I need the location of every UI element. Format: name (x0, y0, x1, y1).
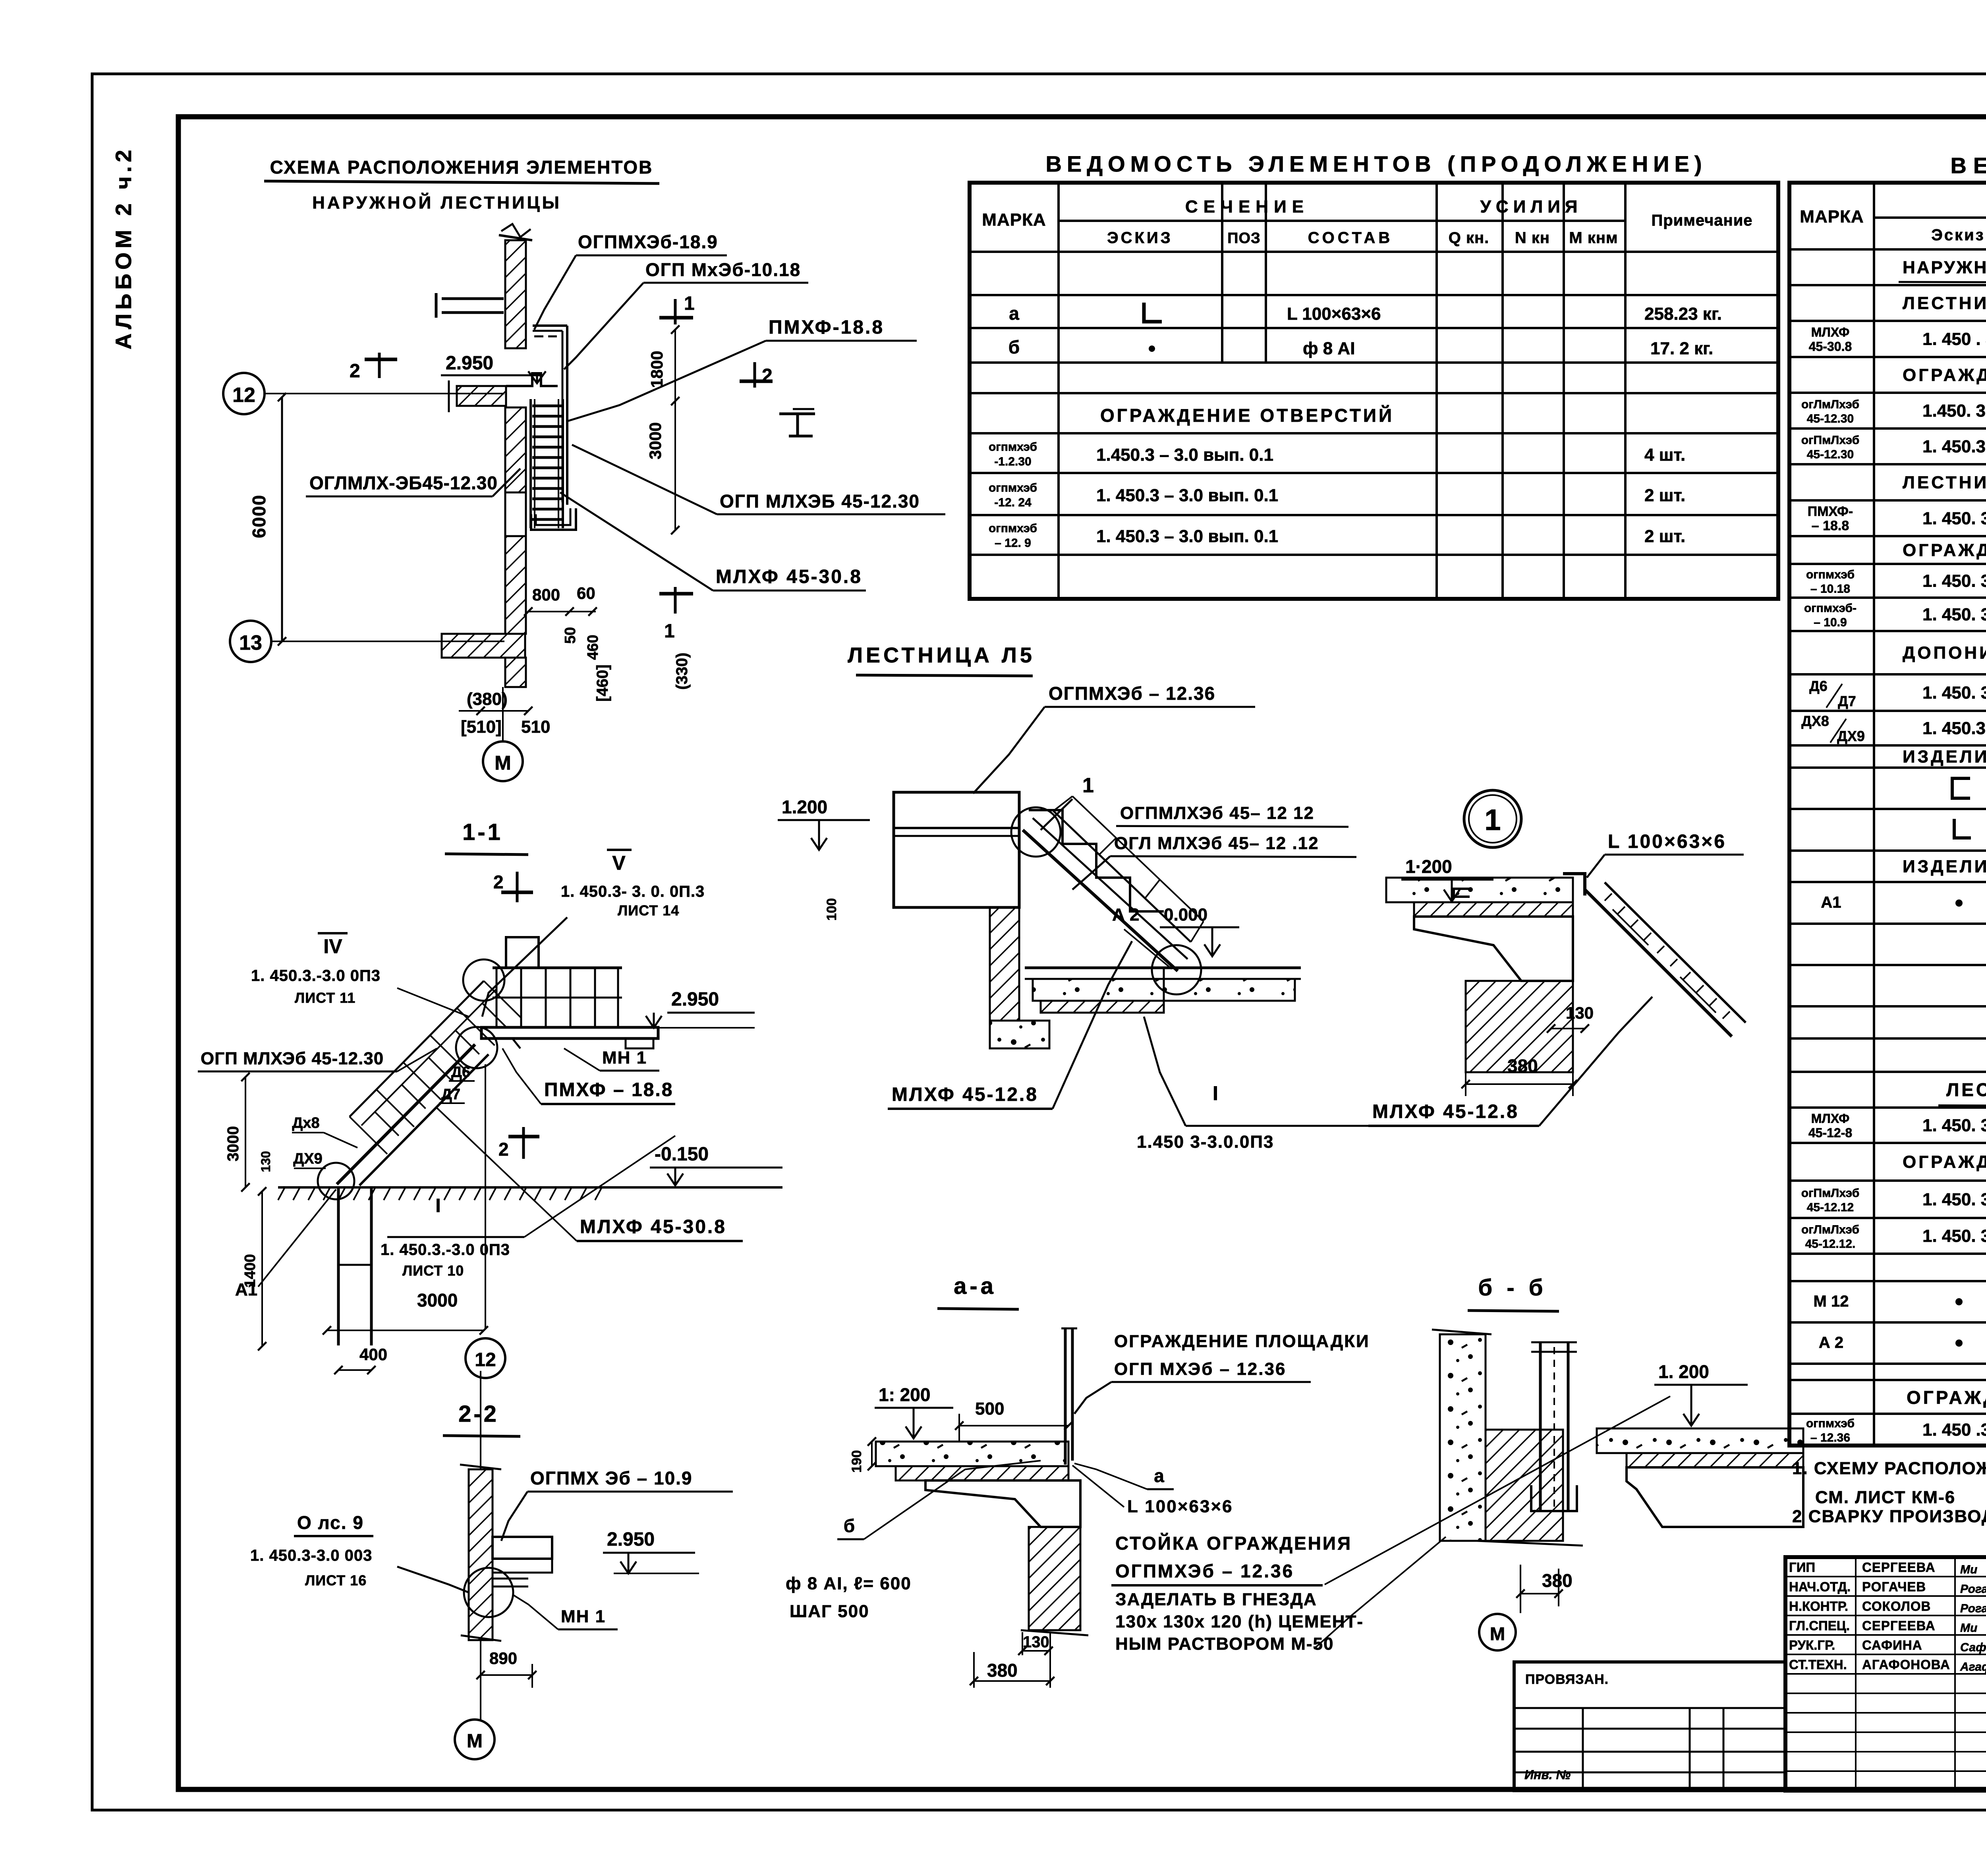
L5 joint circle top (1011, 807, 1061, 857)
svg-text:О лс. 9: О лс. 9 (297, 1512, 364, 1533)
svg-text:ГИП: ГИП (1789, 1560, 1815, 1575)
dim 6000 vertical (281, 397, 283, 641)
svg-text:2-2: 2-2 (458, 1401, 499, 1427)
svg-text:1800: 1800 (647, 351, 666, 388)
svg-text:а: а (1009, 303, 1019, 324)
svg-text:– 12.36: – 12.36 (1810, 1431, 1850, 1444)
svg-text:100: 100 (824, 898, 839, 921)
svg-text:258.23 кг.: 258.23 кг. (1644, 304, 1722, 324)
svg-text:МЛХФ 45-12.8: МЛХФ 45-12.8 (1372, 1101, 1519, 1122)
1-1 grass ticks (278, 1188, 284, 1200)
1-1 stair railing (350, 981, 484, 1117)
svg-text:б: б (1008, 337, 1020, 357)
svg-text:45-12.30: 45-12.30 (1807, 412, 1854, 425)
2-2 axis line lower (480, 1640, 481, 1720)
svg-text:45-12.12: 45-12.12 (1807, 1201, 1854, 1214)
svg-text:ОГРАЖДЕНИЕ ПЛОЩАДКИ: ОГРАЖДЕНИЕ ПЛОЩАДКИ (1114, 1332, 1370, 1351)
svg-text:Сафия: Сафия (1960, 1641, 1986, 1654)
svg-text:3000: 3000 (417, 1290, 458, 1310)
1-1 bottom joint circle (318, 1163, 354, 1199)
svg-text:ОГРАЖДЕНИЕ ОТВЕРСТИЙ: ОГРАЖДЕНИЕ ОТВЕРСТИЙ (1100, 405, 1394, 426)
axis line 12 (265, 393, 504, 394)
svg-text:800: 800 (532, 585, 560, 604)
svg-text:1.450. 3-3; вып. 0:1: 1.450. 3-3; вып. 0:1 (1922, 401, 1986, 421)
svg-text:1. 450 . 3 -3; вып. 0.1: 1. 450 . 3 -3; вып. 0.1 (1922, 330, 1986, 349)
svg-text:0.000: 0.000 (1164, 905, 1207, 924)
L5 railing lines (1053, 811, 1191, 942)
2-2 axis circle M (455, 1720, 495, 1759)
svg-text:I: I (1213, 1082, 1218, 1104)
svg-text:-0.150: -0.150 (655, 1144, 709, 1165)
L5 joint circle bottom (1152, 945, 1201, 994)
svg-text:ЗАДЕЛАТЬ В ГНЕЗДА: ЗАДЕЛАТЬ В ГНЕЗДА (1115, 1590, 1317, 1609)
2-2 wall hatched (469, 1469, 493, 1640)
L5 wall below platform (hatched) (990, 907, 1019, 1021)
svg-text:Рогач: Рогач (1960, 1602, 1986, 1615)
svg-text:ВЕДОМОСТЬ ЭЛЕМЕНТОВ: ВЕДОМОСТЬ ЭЛЕМЕНТОВ (1950, 153, 1986, 178)
schema channel dashes (534, 336, 543, 338)
svg-text:17. 2 кг.: 17. 2 кг. (1650, 339, 1713, 358)
svg-text:ГЛ.СПЕЦ.: ГЛ.СПЕЦ. (1789, 1618, 1850, 1633)
svg-text:б: б (844, 1515, 855, 1536)
svg-text:1. 450. 3-3; вып. 01: 1. 450. 3-3; вып. 01 (1922, 509, 1986, 528)
svg-text:1.450 3-3.0.0П3: 1.450 3-3.0.0П3 (1137, 1132, 1274, 1152)
svg-text:ДОПОНИТЕЛЬНЫЕ ЭЛЕМЕНТЫ: ДОПОНИТЕЛЬНЫЕ ЭЛЕМЕНТЫ (1903, 643, 1986, 663)
svg-text:I: I (435, 1195, 440, 1216)
1-1 top bend circles (463, 959, 504, 1001)
svg-text:Примечание: Примечание (1651, 212, 1752, 229)
svg-text:3000: 3000 (224, 1126, 242, 1162)
svg-text:ПМХФ-18.8: ПМХФ-18.8 (769, 317, 884, 338)
svg-text:ф 8 АI: ф 8 АI (1303, 339, 1355, 358)
svg-text:ОГЛ МЛХЭб 45– 12 .12: ОГЛ МЛХЭб 45– 12 .12 (1114, 834, 1319, 853)
svg-text:ОГПМХЭб – 12.36: ОГПМХЭб – 12.36 (1115, 1561, 1294, 1581)
svg-text:ИЗДЕЛИЯ ЗАКЛАДНЫЕ: ИЗДЕЛИЯ ЗАКЛАДНЫЕ (1903, 747, 1986, 766)
svg-text:400: 400 (359, 1345, 387, 1364)
svg-text:(330): (330) (673, 652, 691, 689)
svg-text:[460]: [460] (594, 664, 611, 701)
detail 1 slab hatch strip (1414, 902, 1573, 917)
1-1 tread marks (454, 1055, 465, 1065)
svg-text:СМ. ЛИСТ КМ-6: СМ. ЛИСТ КМ-6 (1815, 1488, 1955, 1507)
right table row L63 (1954, 819, 1971, 838)
L5 slab hatch strip (1041, 1001, 1164, 1013)
section flag 2 left (378, 353, 381, 378)
svg-text:2: 2 (498, 1139, 509, 1160)
svg-text:45-12.12.: 45-12.12. (1805, 1237, 1856, 1251)
svg-text:НАРУЖНАЯ ЛЕСТНИЦА (шт-1): НАРУЖНАЯ ЛЕСТНИЦА (шт-1) (1903, 258, 1986, 277)
svg-text:огЛмЛхэб: огЛмЛхэб (1801, 398, 1859, 411)
svg-text:РУК.ГР.: РУК.ГР. (1789, 1638, 1835, 1652)
svg-text:НЫМ РАСТВОРОМ М-50: НЫМ РАСТВОРОМ М-50 (1115, 1634, 1334, 1654)
schema slab at axis 13 (hatched) (442, 634, 525, 658)
2-2 joint circle (464, 1568, 513, 1617)
svg-text:ПРОВЯЗАН.: ПРОВЯЗАН. (1525, 1672, 1609, 1687)
svg-text:ЛЕСТНИЦА . Л5 (шт.3): ЛЕСТНИЦА . Л5 (шт.3) (1946, 1079, 1986, 1100)
svg-text:МЛХФ 45-12.8: МЛХФ 45-12.8 (892, 1084, 1038, 1105)
svg-text:М: М (1490, 1623, 1505, 1644)
1-1 platform support (626, 1038, 653, 1048)
L5 stair stringer (1023, 830, 1178, 971)
svg-text:1. 450. 3-3.0 вып.0.1: 1. 450. 3-3.0 вып.0.1 (1922, 1226, 1986, 1246)
svg-text:МН 1: МН 1 (561, 1607, 606, 1626)
svg-text:12: 12 (475, 1349, 496, 1370)
svg-text:ОГП МЛХЭБ 45-12.30: ОГП МЛХЭБ 45-12.30 (720, 491, 920, 511)
1-1 platform floor (481, 1027, 658, 1038)
svg-text:1. 450. 3-3.0 вып. 0.1: 1. 450. 3-3.0 вып. 0.1 (1922, 1190, 1986, 1209)
svg-text:ОГЛМЛХ-ЭБ45-12.30: ОГЛМЛХ-ЭБ45-12.30 (309, 473, 498, 493)
svg-text:L 100×63×6: L 100×63×6 (1608, 831, 1726, 852)
svg-text:ОГП МхЭб-10.18: ОГП МхЭб-10.18 (645, 259, 801, 280)
svg-text:ДХ8: ДХ8 (1801, 713, 1829, 729)
svg-text:1. 450.3 – 3.0 вып. 0.1: 1. 450.3 – 3.0 вып. 0.1 (1096, 527, 1278, 546)
svg-text:ОГРАЖДЕНИЕ ЛЕСТНИЦЫ: ОГРАЖДЕНИЕ ЛЕСТНИЦЫ (1903, 1152, 1986, 1172)
svg-text:ЛИСТ 16: ЛИСТ 16 (305, 1572, 367, 1588)
svg-text:1. 450 .3 – 3.0 вып. 0.1: 1. 450 .3 – 3.0 вып. 0.1 (1922, 1420, 1986, 1440)
svg-text:1. 450. 3-3; вып. 01: 1. 450. 3-3; вып. 01 (1922, 605, 1986, 624)
svg-text:1. 450. 3-3; вып. 0.1: 1. 450. 3-3; вып. 0.1 (1922, 683, 1986, 703)
title block outline (1785, 1557, 1986, 1791)
svg-text:б - б: б - б (1478, 1275, 1547, 1301)
svg-text:2: 2 (493, 872, 504, 892)
b-b axis circle M (1479, 1614, 1516, 1650)
svg-text:L 100×63×6: L 100×63×6 (1127, 1497, 1233, 1516)
L5 railing ties (1053, 796, 1072, 811)
axis line 13 (271, 641, 504, 642)
svg-text:1. 450.3-3.0 003: 1. 450.3-3.0 003 (250, 1547, 372, 1564)
svg-text:45-30.8: 45-30.8 (1809, 340, 1852, 354)
detail 1 angle L100 (1563, 874, 1585, 896)
1-1 railing pickets (484, 981, 522, 1018)
L5 floor slab right (1025, 967, 1301, 969)
svg-text:М кнм: М кнм (1569, 229, 1618, 247)
svg-text:L 100×63×6: L 100×63×6 (1287, 304, 1381, 324)
svg-text:890: 890 (489, 1649, 517, 1668)
svg-text:огПмЛхэб: огПмЛхэб (1801, 434, 1860, 447)
svg-text:ОГПМХЭб – 12.36: ОГПМХЭб – 12.36 (1049, 683, 1215, 704)
svg-text:– 10.9: – 10.9 (1814, 616, 1847, 629)
svg-text:АГАФОНОВА: АГАФОНОВА (1862, 1657, 1950, 1672)
svg-text:380: 380 (987, 1660, 1018, 1681)
svg-text:1.200: 1.200 (782, 797, 827, 817)
svg-text:ОГП МХЭб – 12.36: ОГП МХЭб – 12.36 (1114, 1359, 1286, 1379)
svg-text:-12. 24: -12. 24 (994, 496, 1032, 509)
L5 platform slab (894, 792, 1019, 907)
svg-text:НАЧ.ОТД.: НАЧ.ОТД. (1789, 1579, 1851, 1594)
svg-text:130: 130 (1566, 1004, 1594, 1022)
svg-text:190: 190 (849, 1450, 864, 1473)
schema ladder lower landing (531, 508, 576, 530)
svg-text:огпмхэб: огпмхэб (989, 481, 1037, 494)
svg-text:УСИЛИЯ: УСИЛИЯ (1480, 197, 1582, 216)
svg-text:1. 450.3 – 3.0 вып. 0.1: 1. 450.3 – 3.0 вып. 0.1 (1096, 486, 1278, 505)
dim 1800 3000 right (674, 330, 676, 530)
svg-text:Агаф: Агаф (1960, 1660, 1986, 1673)
svg-text:N кн: N кн (1515, 229, 1550, 247)
1-1 axis line (485, 1064, 486, 1330)
svg-text:4 шт.: 4 шт. (1644, 445, 1685, 465)
svg-text:а-а: а-а (954, 1273, 997, 1299)
2-2 bracket (493, 1537, 552, 1559)
schema top corner channel (533, 324, 567, 327)
svg-text:380: 380 (1507, 1056, 1538, 1076)
svg-text:2: 2 (762, 365, 773, 386)
svg-text:МАРКА: МАРКА (982, 210, 1046, 230)
svg-text:МЛХФ 45-30.8: МЛХФ 45-30.8 (580, 1216, 726, 1237)
svg-text:ИЗДЕЛИЯ СОЕДИНИТЕЛЬНЫЕ: ИЗДЕЛИЯ СОЕДИНИТЕЛЬНЫЕ (1903, 857, 1986, 876)
svg-text:Рогач: Рогач (1960, 1583, 1986, 1596)
svg-text:огЛмЛхэб: огЛмЛхэб (1801, 1223, 1859, 1236)
svg-text:510: 510 (521, 717, 550, 737)
b-b floor slab concrete (1597, 1428, 1803, 1453)
svg-text:[510]: [510] (461, 717, 502, 737)
svg-text:1. 450.3-3; вып. 01: 1. 450.3-3; вып. 01 (1922, 437, 1986, 456)
svg-text:– 10.18: – 10.18 (1810, 583, 1850, 596)
1-1 dim 1400 (261, 1191, 263, 1346)
svg-text:РОГАЧЕВ: РОГАЧЕВ (1862, 1579, 1926, 1594)
detail 1 stringer hatch ticks (1605, 894, 1612, 901)
b-b wall concrete column (1440, 1334, 1486, 1541)
detail 1 column hatched (1466, 981, 1573, 1072)
svg-text:1. 450.3-3; вып. 01: 1. 450.3-3; вып. 01 (1922, 719, 1986, 738)
svg-text:2.950: 2.950 (607, 1529, 655, 1550)
svg-text:1. 450.3.-3.0 0П3: 1. 450.3.-3.0 0П3 (251, 967, 381, 984)
svg-text:1. 450. 3-3; вып. 01: 1. 450. 3-3; вып. 01 (1922, 571, 1986, 591)
svg-text:огпмхэб-: огпмхэб- (1804, 602, 1857, 615)
svg-text:460: 460 (585, 635, 601, 660)
axis circle 12 (223, 373, 265, 414)
svg-text:1·200: 1·200 (1405, 856, 1452, 877)
svg-text:М 12: М 12 (1814, 1293, 1849, 1310)
svg-text:(380): (380) (467, 689, 508, 709)
detail 1 circle (1464, 790, 1521, 847)
1-1 section flag 2 top (516, 872, 519, 902)
svg-text:1. 450. 3 – 3.0 вып. 0.1: 1. 450. 3 – 3.0 вып. 0.1 (1922, 1116, 1986, 1135)
svg-text:МЛХФ: МЛХФ (1811, 325, 1850, 340)
svg-text:ЛЕСТНИЧНЫЙ МАРШ: ЛЕСТНИЧНЫЙ МАРШ (1903, 293, 1986, 313)
svg-text:а: а (1154, 1465, 1164, 1486)
1-1 platform railing (496, 968, 498, 1027)
svg-text:АЛЬБОМ 2 ч.2: АЛЬБОМ 2 ч.2 (111, 146, 136, 349)
svg-text:1.450.3 – 3.0 вып. 0.1: 1.450.3 – 3.0 вып. 0.1 (1096, 445, 1273, 465)
svg-text:130: 130 (1023, 1633, 1049, 1651)
svg-text:380: 380 (1542, 1570, 1573, 1591)
b-b leader to wall (1314, 1537, 1446, 1649)
i-beam mark symbol (779, 413, 815, 415)
svg-text:1-1: 1-1 (462, 819, 503, 845)
svg-text:500: 500 (975, 1399, 1004, 1419)
svg-text:Н.КОНТР.: Н.КОНТР. (1789, 1599, 1848, 1614)
a-a slab hatch strip (896, 1466, 1068, 1480)
b-b axis line (1520, 1594, 1521, 1613)
svg-text:60: 60 (577, 584, 595, 602)
svg-text:СЕЧЕНИЕ: СЕЧЕНИЕ (1185, 197, 1309, 216)
svg-text:САФИНА: САФИНА (1862, 1638, 1922, 1652)
svg-text:1: 200: 1: 200 (879, 1384, 930, 1405)
svg-text:130х 130х 120 (h) ЦЕМЕНТ-: 130х 130х 120 (h) ЦЕМЕНТ- (1115, 1612, 1364, 1631)
a-a wall below (1029, 1527, 1080, 1630)
svg-text:ОГРАЖДЕНИЕ МАРША: ОГРАЖДЕНИЕ МАРША (1903, 365, 1986, 385)
svg-text:ЛЕСТНИЦА Л5: ЛЕСТНИЦА Л5 (848, 643, 1035, 667)
axis line M vertical (502, 687, 504, 741)
svg-text:IV: IV (323, 935, 342, 957)
svg-text:1. 450.3.-3.0 0П3: 1. 450.3.-3.0 0П3 (381, 1241, 510, 1258)
svg-text:СЕРГЕЕВА: СЕРГЕЕВА (1862, 1560, 1936, 1575)
svg-text:ЛИСТ 10: ЛИСТ 10 (402, 1262, 464, 1279)
svg-text:3000: 3000 (646, 422, 665, 459)
svg-text:– 12. 9: – 12. 9 (995, 537, 1031, 550)
axis circle M (483, 741, 523, 781)
detail 1 stair stringer down-right (1585, 890, 1732, 1036)
svg-text:ПОЗ: ПОЗ (1227, 230, 1261, 247)
detail 1 slab concrete (1386, 878, 1573, 902)
detail 1 beam under slab (1414, 917, 1573, 981)
svg-text:А 2: А 2 (1819, 1334, 1843, 1351)
svg-text:ЛИСТ 11: ЛИСТ 11 (295, 990, 355, 1006)
svg-text:130: 130 (259, 1151, 273, 1172)
svg-text:СОКОЛОВ: СОКОЛОВ (1862, 1599, 1931, 1614)
svg-text:2.950: 2.950 (671, 989, 719, 1010)
provyazan table (1514, 1662, 1785, 1791)
svg-text:А 2: А 2 (1112, 905, 1139, 924)
b-b beam under slab (1627, 1467, 1803, 1527)
svg-text:ДХ9: ДХ9 (293, 1150, 323, 1167)
svg-text:ОГПМХЭб-18.9: ОГПМХЭб-18.9 (578, 232, 718, 252)
svg-text:1: 1 (1082, 774, 1094, 797)
svg-text:1: 1 (684, 293, 695, 314)
svg-text:огПмЛхэб: огПмЛхэб (1801, 1187, 1860, 1200)
a-a slab concrete strip (876, 1442, 1068, 1466)
svg-text:огпмхэб: огпмхэб (989, 440, 1037, 454)
svg-text:50: 50 (562, 627, 579, 644)
schema wall below axis 13 (505, 658, 526, 687)
right table grid (1789, 183, 1986, 1446)
svg-text:ОГП МЛХЭб 45-12.30: ОГП МЛХЭб 45-12.30 (201, 1049, 384, 1068)
svg-text:ОГПМХ Эб – 10.9: ОГПМХ Эб – 10.9 (530, 1468, 693, 1488)
svg-text:ОГРАЖДЕНИЕ ПЛОЩАДКИ: ОГРАЖДЕНИЕ ПЛОЩАДКИ (1903, 540, 1986, 560)
svg-text:огпмхэб: огпмхэб (1806, 568, 1855, 581)
svg-text:Д7: Д7 (441, 1086, 460, 1103)
b-b post channel bottom (1531, 1485, 1577, 1511)
svg-text:2: 2 (350, 361, 360, 382)
svg-text:12: 12 (232, 384, 255, 407)
svg-text:ЛИСТ 14: ЛИСТ 14 (618, 902, 679, 919)
svg-text:ДХ9: ДХ9 (1837, 728, 1865, 744)
a-a railing post (1064, 1328, 1067, 1465)
svg-text:6000: 6000 (249, 494, 269, 538)
svg-text:1. СХЕМУ РАСПОЛОЖЕНИЯ ПЕРЕХ: 1. СХЕМУ РАСПОЛОЖЕНИЯ ПЕРЕХОДНЫХ МОСТИКО… (1792, 1459, 1986, 1478)
svg-text:ЛЕСТНИЧНАЯ ПЛОЩАДКА: ЛЕСТНИЧНАЯ ПЛОЩАДКА (1903, 473, 1986, 492)
1-1 foundation column (337, 1188, 340, 1345)
svg-text:2 СВАРКУ ПРОИЗВОДИТЬ ЭЛЕКТРОДА: 2 СВАРКУ ПРОИЗВОДИТЬ ЭЛЕКТРОДАМИ ТИПА Э4… (1792, 1507, 1986, 1526)
schema ladder stair flight (529, 399, 532, 528)
svg-text:Дх8: Дх8 (292, 1115, 319, 1131)
svg-text:А1: А1 (1821, 894, 1841, 911)
svg-text:МЛХФ 45-30.8: МЛХФ 45-30.8 (716, 566, 862, 587)
svg-text:45-12.30: 45-12.30 (1807, 448, 1854, 461)
svg-text:Ми: Ми (1960, 1563, 1977, 1576)
svg-text:огпмхэб: огпмхэб (1806, 1417, 1855, 1430)
section flag 1 top (674, 299, 677, 324)
svg-text:– 18.8: – 18.8 (1812, 518, 1849, 533)
1-1 upper guard piece (506, 937, 539, 968)
axis circle 13 (230, 621, 271, 662)
svg-text:-1.2.30: -1.2.30 (994, 455, 1031, 468)
svg-text:V: V (612, 852, 626, 874)
svg-text:Ми: Ми (1960, 1621, 1977, 1635)
svg-text:НАРУЖНОЙ ЛЕСТНИЦЫ: НАРУЖНОЙ ЛЕСТНИЦЫ (312, 192, 562, 212)
svg-text:ф 8 АI, ℓ= 600: ф 8 АI, ℓ= 600 (786, 1574, 912, 1593)
middle table grid (970, 183, 1778, 599)
L5 stair treads (1029, 810, 1164, 911)
1-1 axis circle 12 bottom (466, 1338, 505, 1378)
svg-text:Q кн.: Q кн. (1449, 229, 1489, 247)
svg-text:ОГРАЖДЕНИЕ ПЛОЩАДКИ: ОГРАЖДЕНИЕ ПЛОЩАДКИ (1907, 1387, 1986, 1408)
svg-text:2 шт.: 2 шт. (1644, 486, 1685, 505)
svg-text:МЛХФ: МЛХФ (1811, 1112, 1850, 1126)
svg-text:Эскиз: Эскиз (1931, 226, 1985, 244)
svg-text:ШАГ 500: ШАГ 500 (790, 1602, 869, 1621)
svg-text:1. 450.3- 3. 0. 0П.3: 1. 450.3- 3. 0. 0П.3 (561, 883, 705, 900)
L5 foundation pad (990, 1021, 1049, 1048)
svg-text:Д6: Д6 (1809, 678, 1828, 694)
svg-text:Д6: Д6 (451, 1064, 470, 1081)
svg-text:2.950: 2.950 (446, 353, 493, 374)
b-b embedded post (1539, 1342, 1542, 1511)
section flag 1 bottom (674, 587, 677, 614)
right table row C16 (1952, 778, 1970, 798)
b-b wall break top (1432, 1330, 1491, 1334)
detail 1 C-channel in slab (1454, 889, 1470, 897)
svg-text:45-12-8: 45-12-8 (1808, 1126, 1852, 1140)
svg-text:М: М (467, 1731, 483, 1752)
svg-text:МАРКА: МАРКА (1800, 207, 1864, 226)
svg-text:Инв. №: Инв. № (1524, 1768, 1571, 1782)
1-1 stair stringer (337, 1044, 475, 1184)
svg-text:СЕРГЕЕВА: СЕРГЕЕВА (1862, 1618, 1936, 1633)
svg-text:ЭСКИЗ: ЭСКИЗ (1107, 229, 1173, 247)
svg-text:1: 1 (1484, 803, 1501, 836)
1-1 section flag 2 bottom (522, 1127, 525, 1159)
schema wall upper (hatched) (505, 240, 526, 348)
a-a beam under slab (925, 1480, 1080, 1527)
schema slab at axis 12 (hatched) (457, 386, 506, 406)
schema i-beam bracket left (442, 297, 504, 300)
section flag 2 right (753, 362, 756, 388)
b-b wall inner hatch lower (1486, 1430, 1563, 1541)
svg-text:Д7: Д7 (1838, 693, 1856, 709)
svg-text:ОГПМЛХЭб 45– 12 12: ОГПМЛХЭб 45– 12 12 (1120, 803, 1314, 823)
schema lower wall (hatched) (505, 407, 526, 492)
svg-text:МН 1: МН 1 (602, 1048, 647, 1067)
svg-text:СТОЙКА ОГРАЖДЕНИЯ: СТОЙКА ОГРАЖДЕНИЯ (1115, 1533, 1352, 1554)
svg-text:СХЕМА РАСПОЛОЖЕНИЯ ЭЛЕМЕНТОВ: СХЕМА РАСПОЛОЖЕНИЯ ЭЛЕМЕНТОВ (270, 157, 653, 178)
svg-text:ВЕДОМОСТЬ ЭЛЕМЕНТОВ (ПРОДОЛЖЕН: ВЕДОМОСТЬ ЭЛЕМЕНТОВ (ПРОДОЛЖЕНИЕ) (1045, 151, 1707, 176)
b-b slab hatch strip (1627, 1453, 1803, 1467)
svg-text:А1: А1 (235, 1280, 257, 1299)
svg-text:СОСТАВ: СОСТАВ (1308, 229, 1393, 247)
2-2 axis line upper (480, 1371, 481, 1469)
1-1 dim 3000 vertical (245, 1077, 246, 1187)
svg-text:огпмхэб: огпмхэб (989, 522, 1037, 535)
svg-text:13: 13 (239, 631, 262, 654)
svg-text:ПМХФ-: ПМХФ- (1808, 504, 1853, 519)
svg-text:ПМХФ – 18.8: ПМХФ – 18.8 (544, 1079, 673, 1100)
svg-text:СТ.ТЕХН.: СТ.ТЕХН. (1789, 1657, 1847, 1672)
svg-text:2 шт.: 2 шт. (1644, 527, 1685, 546)
svg-text:1. 200: 1. 200 (1658, 1361, 1709, 1382)
svg-text:М: М (495, 752, 511, 774)
